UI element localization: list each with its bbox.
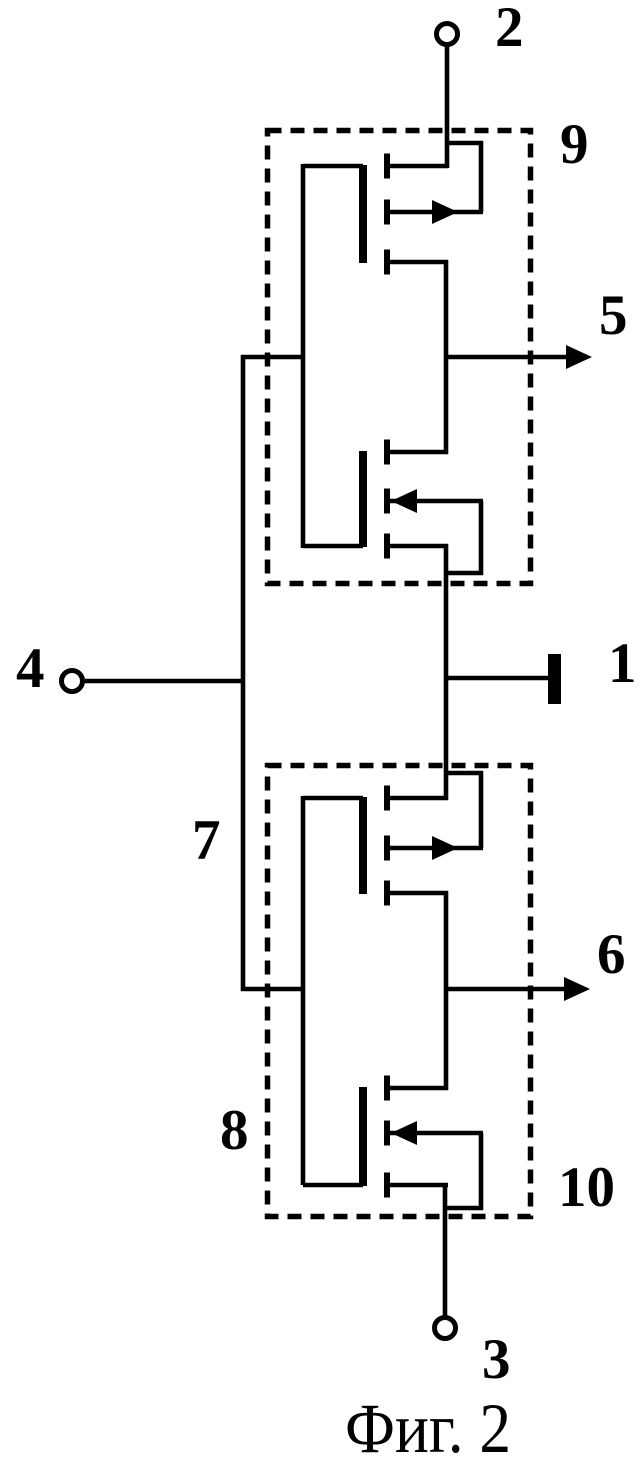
VT4 substrate region tick: [384, 1121, 390, 1146]
transistor VT3: [303, 771, 483, 906]
wire VT2 source to VT3 drain: [444, 544, 449, 800]
arrowhead output 5: [566, 345, 592, 369]
VT2 substrate arrow: [391, 489, 417, 513]
VT1 drain terminal wire: [389, 164, 448, 169]
VT3 substrate region tick: [384, 836, 390, 861]
svg-text:6: 6: [597, 923, 626, 986]
VT2 gate connect wire: [303, 544, 363, 549]
VT1 substrate region tick: [384, 200, 390, 225]
VT3 substrate terminal wire: [389, 846, 483, 851]
wire bus jog top: [241, 355, 303, 360]
arrowhead output 6: [564, 977, 590, 1001]
svg-text:7: 7: [192, 809, 221, 872]
VT2 substrate terminal wire: [389, 499, 483, 504]
VT1 gate bar: [359, 165, 367, 263]
terminal 3 circle: [435, 1318, 456, 1339]
svg-text:Фиг. 2: Фиг. 2: [345, 1390, 511, 1464]
VT3 gate bar: [359, 797, 367, 894]
svg-text:4: 4: [16, 637, 45, 700]
VT1 source terminal wire: [389, 260, 448, 265]
node 1 substrate bar: [548, 654, 561, 704]
VT3 drain region tick: [384, 786, 390, 811]
wire terminal 2 to VT1 drain: [445, 46, 450, 168]
transistor VT1: [303, 141, 483, 275]
VT1 substrate arrow: [432, 200, 458, 224]
VT1 gate connect wire: [303, 164, 363, 169]
VT3 gate connect wire: [303, 796, 363, 801]
VT4 substrate arrow: [391, 1121, 417, 1145]
VT2 source terminal wire: [389, 544, 448, 549]
wire output 6: [444, 987, 565, 992]
VT4 drain terminal wire: [389, 1086, 448, 1091]
VT4 substrate return wire: [446, 1206, 483, 1211]
transistor VT2: [303, 440, 483, 576]
svg-text:3: 3: [482, 1328, 511, 1391]
VT3 substrate arrow: [432, 836, 458, 860]
node 1 wire: [446, 676, 550, 681]
wire VT3 source to VT4 drain: [444, 891, 449, 1090]
VT3 source region tick: [384, 881, 390, 906]
wire output 5: [446, 355, 568, 360]
VT3 substrate return wire: [446, 771, 483, 776]
VT2 drain region tick: [384, 440, 390, 465]
VT4 gate bar: [359, 1087, 367, 1186]
wire gate bus lower: [301, 796, 306, 1185]
VT4 source terminal wire: [389, 1183, 448, 1188]
VT2 substrate return wire: [446, 571, 483, 576]
wire terminal 4 to bus: [84, 679, 243, 684]
VT1 source region tick: [384, 250, 390, 275]
block 9 dashed box: [268, 131, 531, 584]
VT2 source region tick: [384, 534, 390, 559]
VT1 drain region tick: [384, 154, 390, 179]
VT1 substrate return wire: [446, 141, 483, 146]
VT4 source region tick: [384, 1173, 390, 1198]
wire input bus (net 7): [241, 355, 246, 991]
transistor VT4: [303, 1076, 483, 1211]
wire gate bus upper (net 7): [301, 164, 306, 548]
svg-text:10: 10: [558, 1156, 615, 1219]
VT2 substrate region tick: [384, 489, 390, 514]
terminal 2 circle: [437, 24, 458, 45]
wire VT1 source to VT2 drain: [444, 260, 449, 454]
VT4 substrate terminal wire: [389, 1131, 483, 1136]
VT4 gate connect wire: [303, 1183, 363, 1188]
svg-text:1: 1: [608, 632, 637, 695]
svg-text:9: 9: [560, 113, 589, 176]
svg-text:2: 2: [495, 0, 524, 59]
svg-text:5: 5: [599, 284, 628, 347]
VT2 gate bar: [359, 451, 367, 547]
terminal 4 circle: [62, 671, 83, 692]
wire bus jog bottom: [241, 987, 303, 992]
block 8 dashed box: [268, 766, 531, 1217]
VT3 drain terminal wire: [389, 796, 448, 801]
VT3 source terminal wire: [389, 891, 448, 896]
wire VT4 source to terminal 3: [443, 1185, 448, 1318]
VT4 drain region tick: [384, 1076, 390, 1101]
VT2 drain terminal wire: [389, 450, 448, 455]
svg-text:8: 8: [220, 1099, 249, 1162]
VT1 substrate terminal wire: [389, 210, 483, 215]
